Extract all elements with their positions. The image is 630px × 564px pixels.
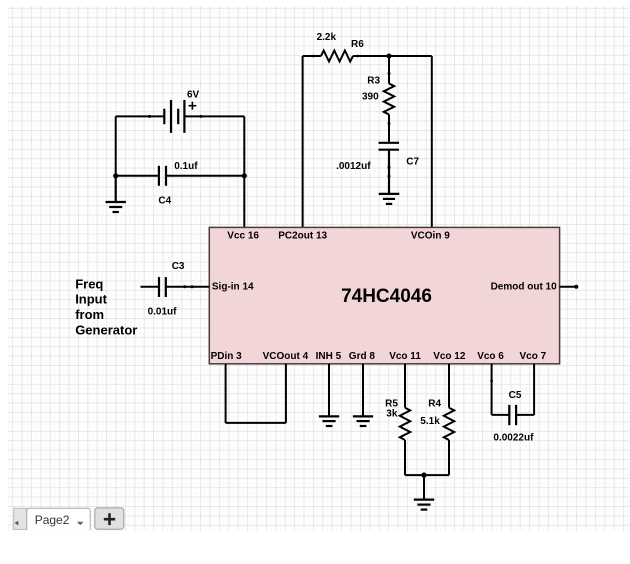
resistor R3 390 — [384, 84, 394, 115]
svg-text:2.2k: 2.2k — [317, 32, 337, 43]
wire INH5 — [328, 364, 330, 417]
junction dot right C4 — [242, 173, 247, 178]
freq input annotation text — [75, 276, 137, 337]
wire battery loop top-left segment — [116, 116, 245, 227]
svg-text:Sig-in 14: Sig-in 14 — [212, 282, 254, 293]
capacitor C5 — [509, 405, 516, 425]
svg-text:INH 5: INH 5 — [316, 351, 342, 362]
junction dot left C4 — [113, 173, 118, 178]
svg-text:Input: Input — [75, 292, 107, 307]
battery terminal dots — [148, 115, 151, 118]
svg-text:0.0022uf: 0.0022uf — [493, 433, 534, 444]
battery plus sign — [189, 102, 197, 110]
svg-text:Vcc 16: Vcc 16 — [227, 230, 259, 241]
svg-text:Vco 7: Vco 7 — [520, 351, 547, 362]
svg-text:C3: C3 — [172, 261, 185, 272]
svg-text:Vco 12: Vco 12 — [433, 351, 466, 362]
svg-text:Vco 6: Vco 6 — [477, 351, 504, 362]
wire top net R6 — [303, 56, 432, 227]
svg-text:R4: R4 — [428, 398, 441, 409]
tab Page2 — [27, 508, 90, 530]
svg-text:Vco 11: Vco 11 — [389, 351, 421, 362]
wire R5 branch — [404, 364, 406, 475]
svg-text:VCOout 4: VCOout 4 — [263, 351, 309, 362]
capacitor C4 — [159, 166, 166, 186]
battery BT1 6V — [164, 100, 184, 133]
svg-text:Generator: Generator — [75, 323, 137, 338]
svg-text:390: 390 — [362, 92, 379, 103]
svg-text:6V: 6V — [187, 90, 200, 101]
op IC U1 74HC4046 body — [209, 227, 559, 363]
svg-text:74HC4046: 74HC4046 — [341, 286, 432, 307]
svg-text:3k: 3k — [386, 408, 398, 419]
resistor R4 5.1k — [444, 408, 454, 440]
svg-text:0.01uf: 0.01uf — [148, 307, 178, 318]
svg-text:R6: R6 — [351, 39, 364, 50]
junction dot node R3 tap — [387, 54, 392, 59]
capacitor C3 — [159, 277, 166, 297]
demod stub end dot — [574, 285, 578, 289]
svg-text:0.1uf: 0.1uf — [174, 161, 198, 172]
C7 terminal dots — [388, 166, 391, 169]
R3 terminal dots — [388, 72, 391, 75]
svg-text:PDin 3: PDin 3 — [211, 351, 243, 362]
svg-text:VCOin 9: VCOin 9 — [411, 230, 450, 241]
Vco6 wire terminal dot — [490, 380, 493, 383]
svg-text:R3: R3 — [367, 76, 380, 87]
ground Grd8 — [353, 416, 373, 426]
svg-text:Grd 8: Grd 8 — [349, 351, 376, 362]
svg-text:Demod out 10: Demod out 10 — [491, 282, 558, 293]
svg-text:5.1k: 5.1k — [420, 416, 440, 427]
svg-text:PC2out 13: PC2out 13 — [278, 230, 327, 241]
ground under C7 — [379, 194, 400, 204]
tab bar scroll button — [14, 508, 27, 529]
wire demod out stub — [560, 286, 577, 288]
wire R3 branch — [388, 56, 390, 142]
wire R5-R4 bottom join — [405, 475, 449, 500]
wire Grd8 — [362, 364, 364, 417]
svg-text:Page2: Page2 — [35, 513, 70, 527]
capacitor C7 — [379, 143, 400, 194]
junction dot R5 R4 net — [421, 472, 426, 477]
wire Vco6 Vco7 loop — [492, 364, 534, 415]
svg-text:.0012uf: .0012uf — [336, 161, 371, 172]
svg-text:from: from — [75, 307, 104, 322]
tab add button — [95, 508, 124, 529]
wire sig-in — [141, 286, 210, 288]
ground under C4 — [106, 176, 126, 212]
svg-text:C7: C7 — [406, 157, 419, 168]
ground INH5 — [319, 416, 339, 426]
resistor R5 3k — [400, 408, 410, 440]
wire PDin-VCOout loop — [226, 364, 286, 423]
svg-text:C4: C4 — [158, 195, 171, 206]
svg-text:Freq: Freq — [75, 276, 103, 291]
ground bottom net — [414, 500, 434, 510]
svg-text:C5: C5 — [509, 390, 522, 401]
R6 terminal dots — [312, 55, 315, 58]
resistor R6 2.2k — [321, 51, 353, 62]
wire R4 branch — [448, 364, 450, 475]
C3 terminal dots — [183, 285, 186, 288]
